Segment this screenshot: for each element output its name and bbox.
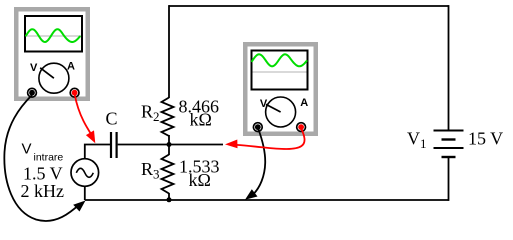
meter M1 screen reference line: [26, 35, 81, 37]
meter M1 waveform: [26, 29, 80, 42]
svg-text:V: V: [22, 141, 32, 158]
battery V1: [434, 131, 464, 158]
wire junction to R3: [168, 145, 170, 156]
meter M1 (oscilloscope/multimeter top-left): [14, 7, 90, 101]
capacitor C: [111, 132, 117, 158]
arrowhead M2 black: [245, 189, 258, 200]
svg-text:intrare: intrare: [34, 152, 64, 164]
wire right vertical to battery: [448, 5, 450, 130]
meter M2 (oscilloscope/multimeter middle): [243, 42, 318, 136]
meter M2 needle: [266, 104, 281, 112]
svg-text:C: C: [106, 109, 118, 129]
meter M1 black probe jack: [28, 88, 37, 97]
meter M2 dial: [266, 97, 296, 127]
meter M1 red probe jack: [70, 88, 79, 97]
wire top: [169, 5, 449, 7]
wire junction stub to right: [169, 144, 223, 146]
sine symbol inside source: [76, 168, 93, 177]
wire AC source bottom: [84, 187, 86, 200]
svg-text:15 V: 15 V: [468, 129, 503, 149]
svg-text:A: A: [67, 61, 75, 73]
meter M2 screen: [252, 51, 308, 90]
svg-text:kΩ: kΩ: [189, 170, 211, 190]
meter M2 screen reference line: [253, 71, 307, 73]
arrowhead M1 black: [73, 201, 85, 212]
wire left vertical (top lead of R2): [168, 5, 170, 98]
svg-text:kΩ: kΩ: [190, 110, 212, 130]
meter M1 screen: [25, 16, 82, 52]
wire bottom: [85, 199, 449, 201]
probe wire M1 black (to AC source bottom node): [4, 95, 80, 221]
source Vintrare (AC): [71, 159, 99, 187]
meter M1 dial: [39, 63, 69, 93]
meter M2 red probe jack: [297, 123, 306, 132]
meter M1 frame: [14, 7, 90, 101]
wire battery to bottom: [448, 158, 450, 201]
wire R3 to bottom node: [168, 193, 170, 200]
arrowhead M2 red: [225, 140, 238, 149]
probe wire M2 red (to junction stub): [237, 129, 305, 149]
wire R2 to junction node: [168, 135, 170, 145]
resistor R2: [162, 98, 174, 137]
wire capacitor to junction: [118, 144, 169, 146]
probe wire M1 red (to capacitor input node): [75, 95, 92, 136]
meter M2 waveform: [252, 54, 307, 66]
svg-text:2 kHz: 2 kHz: [21, 181, 65, 201]
arrowhead M1 red: [86, 130, 95, 143]
node bottom (R3/ground wire): [167, 197, 172, 202]
meter M2 frame: [243, 42, 318, 136]
svg-text:A: A: [300, 97, 308, 109]
probe wire M2 black (to bottom wire): [253, 129, 266, 195]
meter M2 black probe jack: [253, 123, 262, 132]
meter M1 needle: [40, 68, 54, 78]
svg-text:V: V: [30, 62, 38, 74]
wire AC source top to capacitor: [85, 145, 110, 160]
resistor R3: [162, 155, 174, 194]
node junction (R2/R3/C): [167, 142, 172, 147]
